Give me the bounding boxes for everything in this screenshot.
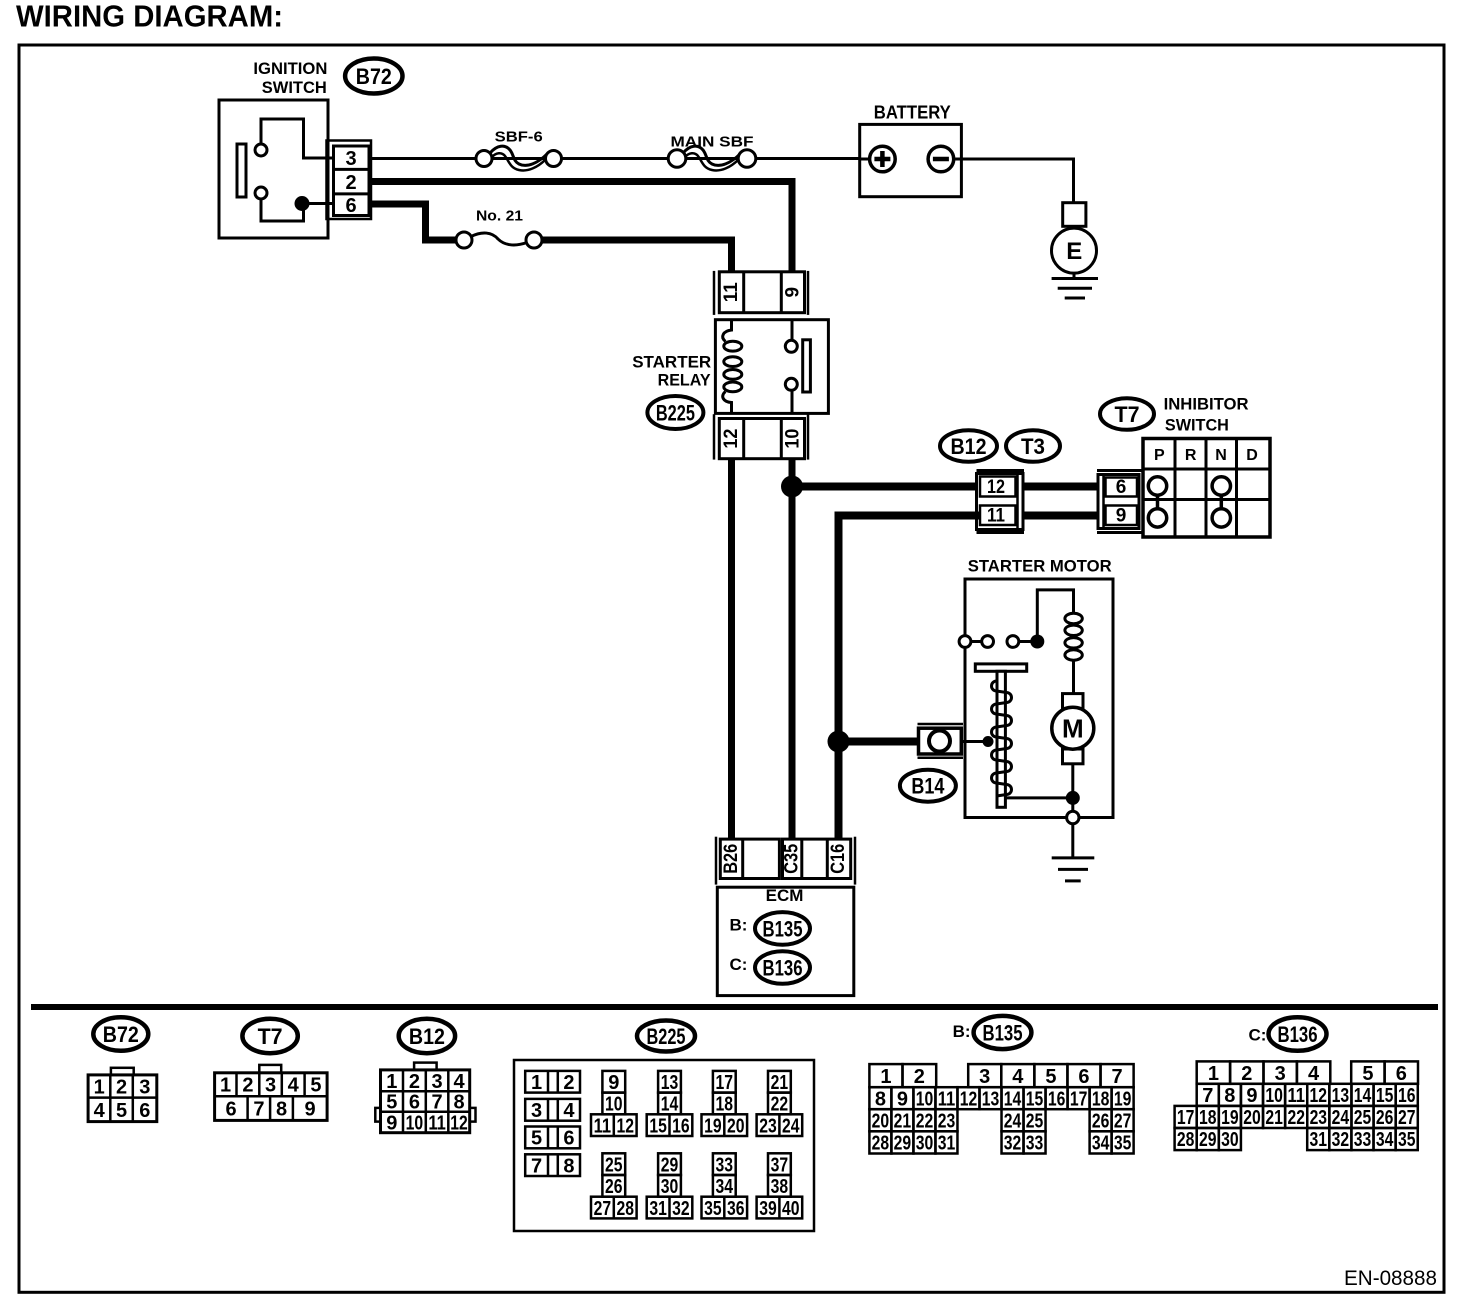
svg-text:12: 12 xyxy=(1310,1085,1328,1107)
wire contact to field coil xyxy=(1037,590,1073,642)
svg-text:C35: C35 xyxy=(782,843,803,873)
solenoid wire node xyxy=(983,736,994,747)
ground symbol starter motor xyxy=(1052,858,1095,881)
svg-text:2: 2 xyxy=(345,172,356,194)
svg-text:9: 9 xyxy=(304,1099,315,1121)
svg-text:5: 5 xyxy=(1362,1063,1373,1085)
connector B136 pin layout xyxy=(1175,1061,1418,1151)
connector label B135 xyxy=(755,912,810,945)
svg-text:34: 34 xyxy=(716,1176,734,1198)
connector B225 pin towers row 2 xyxy=(591,1153,802,1220)
svg-text:B136: B136 xyxy=(1278,1022,1318,1047)
svg-text:B135: B135 xyxy=(983,1021,1023,1046)
svg-text:10: 10 xyxy=(605,1094,623,1116)
svg-text:20: 20 xyxy=(727,1115,745,1137)
svg-text:6: 6 xyxy=(139,1100,150,1122)
svg-text:12: 12 xyxy=(450,1112,468,1134)
junction node C16 branch xyxy=(828,731,850,753)
svg-text:35: 35 xyxy=(704,1198,722,1220)
svg-text:12: 12 xyxy=(721,429,742,449)
svg-text:15: 15 xyxy=(1376,1085,1394,1107)
motor brush lower xyxy=(1063,749,1084,764)
svg-text:4: 4 xyxy=(453,1071,465,1093)
ECM connector pins xyxy=(716,837,855,885)
svg-text:T7: T7 xyxy=(258,1024,283,1049)
svg-text:3: 3 xyxy=(531,1100,542,1122)
ignition switch xyxy=(219,100,333,238)
svg-text:7: 7 xyxy=(253,1099,264,1121)
svg-text:No. 21: No. 21 xyxy=(476,208,523,225)
battery xyxy=(860,124,962,196)
wire relay pin 10 to ECM C35 xyxy=(789,459,796,839)
title xyxy=(16,0,283,34)
svg-text:3: 3 xyxy=(432,1071,443,1093)
wire stem to ground node xyxy=(1005,796,1072,799)
svg-text:T3: T3 xyxy=(1021,434,1045,459)
svg-text:28: 28 xyxy=(1177,1129,1195,1151)
svg-text:19: 19 xyxy=(1221,1107,1239,1129)
wire B14 into solenoid xyxy=(961,740,984,743)
svg-text:12: 12 xyxy=(960,1088,978,1110)
svg-text:35: 35 xyxy=(1398,1129,1416,1151)
svg-text:5: 5 xyxy=(310,1075,321,1097)
ECM connector C label xyxy=(730,955,748,974)
svg-text:M: M xyxy=(1062,714,1084,744)
svg-text:7: 7 xyxy=(432,1092,443,1114)
svg-text:2: 2 xyxy=(563,1072,574,1094)
svg-text:14: 14 xyxy=(661,1094,679,1116)
starter motor label xyxy=(968,556,1112,575)
svg-text:40: 40 xyxy=(782,1198,800,1220)
svg-text:6: 6 xyxy=(409,1092,420,1114)
starter motor box xyxy=(965,579,1113,818)
ground symbol battery xyxy=(1052,273,1098,298)
svg-text:4: 4 xyxy=(1308,1063,1320,1085)
svg-text:32: 32 xyxy=(1004,1133,1022,1155)
svg-text:28: 28 xyxy=(872,1133,890,1155)
svg-text:6: 6 xyxy=(226,1099,237,1121)
svg-text:RELAY: RELAY xyxy=(658,371,712,390)
connector label B72 (layout) xyxy=(93,1017,148,1051)
svg-text:14: 14 xyxy=(1004,1088,1022,1110)
svg-text:30: 30 xyxy=(1221,1129,1239,1151)
svg-text:23: 23 xyxy=(759,1115,777,1137)
svg-text:39: 39 xyxy=(759,1198,777,1220)
svg-text:3: 3 xyxy=(139,1077,150,1099)
wire relay pin 12 to ECM B26 xyxy=(728,459,735,839)
solenoid plunger stem xyxy=(997,671,1005,807)
svg-text:6: 6 xyxy=(1116,477,1127,498)
fuse No. 21 xyxy=(456,232,542,248)
svg-text:12: 12 xyxy=(987,477,1005,498)
svg-text:1: 1 xyxy=(1208,1063,1219,1085)
fuse SBF-6 xyxy=(476,146,562,170)
connector label T7 (layout) xyxy=(242,1019,297,1053)
svg-text:6: 6 xyxy=(563,1128,574,1150)
svg-text:7: 7 xyxy=(531,1155,542,1177)
svg-text:6: 6 xyxy=(1396,1063,1407,1085)
svg-text:1: 1 xyxy=(94,1077,105,1099)
svg-text:STARTER MOTOR: STARTER MOTOR xyxy=(968,556,1112,575)
svg-text:16: 16 xyxy=(1048,1088,1066,1110)
svg-text:8: 8 xyxy=(1224,1085,1235,1107)
connector T7 pin layout xyxy=(215,1065,328,1121)
svg-text:8: 8 xyxy=(453,1092,464,1114)
svg-text:EN-08888: EN-08888 xyxy=(1344,1267,1437,1290)
svg-text:2: 2 xyxy=(242,1075,253,1097)
svg-text:22: 22 xyxy=(1287,1107,1305,1129)
wire motor to ground node xyxy=(1071,764,1074,791)
svg-text:26: 26 xyxy=(1376,1107,1394,1129)
motor ground node xyxy=(1066,791,1080,805)
svg-text:9: 9 xyxy=(782,287,803,298)
svg-text:25: 25 xyxy=(1026,1111,1044,1133)
connector label B136 xyxy=(755,951,810,984)
svg-text:11: 11 xyxy=(1287,1085,1305,1107)
inhibitor contacts N xyxy=(1212,477,1230,527)
svg-text:32: 32 xyxy=(1332,1129,1350,1151)
svg-text:11: 11 xyxy=(428,1112,446,1134)
wire B72 pin 3 to battery xyxy=(369,157,860,160)
svg-text:N: N xyxy=(1215,447,1227,464)
svg-text:7: 7 xyxy=(1202,1085,1213,1107)
svg-text:SWITCH: SWITCH xyxy=(1165,415,1229,434)
svg-text:4: 4 xyxy=(563,1100,575,1122)
svg-text:5: 5 xyxy=(386,1092,397,1114)
svg-text:11: 11 xyxy=(938,1088,956,1110)
svg-text:17: 17 xyxy=(1177,1107,1195,1129)
ECM box xyxy=(717,887,854,995)
svg-text:E: E xyxy=(1066,238,1082,265)
ECM C prefix (layout) xyxy=(1249,1025,1267,1044)
wire battery negative to ground E xyxy=(954,159,1074,203)
svg-text:11: 11 xyxy=(987,505,1005,526)
connector label B72 xyxy=(345,59,402,94)
relay armature bar xyxy=(803,340,811,392)
svg-text:25: 25 xyxy=(605,1154,623,1176)
svg-text:B72: B72 xyxy=(356,64,392,89)
connector B12 pin layout xyxy=(375,1063,475,1135)
svg-text:17: 17 xyxy=(1070,1088,1088,1110)
junction node relay output xyxy=(781,476,803,498)
svg-text:BATTERY: BATTERY xyxy=(874,103,951,123)
svg-text:21: 21 xyxy=(771,1072,789,1094)
svg-text:25: 25 xyxy=(1354,1107,1372,1129)
svg-text:29: 29 xyxy=(661,1154,679,1176)
svg-text:29: 29 xyxy=(894,1133,912,1155)
svg-text:4: 4 xyxy=(94,1100,106,1122)
inhibitor switch label xyxy=(1164,394,1249,434)
svg-text:34: 34 xyxy=(1376,1129,1394,1151)
svg-text:B12: B12 xyxy=(409,1024,445,1049)
connector B14 xyxy=(918,724,964,758)
svg-text:P: P xyxy=(1154,447,1165,464)
wire junction to connector B12 pin 12 xyxy=(792,483,977,491)
ground block E xyxy=(1052,203,1097,273)
svg-text:13: 13 xyxy=(661,1072,679,1094)
wire node to case xyxy=(1071,798,1074,811)
connector label T3 xyxy=(1006,430,1060,462)
svg-text:8: 8 xyxy=(276,1099,287,1121)
connector B12/T3 xyxy=(977,471,1025,533)
label No. 21 xyxy=(476,208,523,225)
svg-text:32: 32 xyxy=(672,1198,690,1220)
svg-text:B14: B14 xyxy=(911,774,945,799)
svg-text:9: 9 xyxy=(608,1072,619,1094)
ECM label xyxy=(766,886,804,905)
svg-text:C16: C16 xyxy=(828,844,849,874)
starter motor field coil xyxy=(1065,613,1082,693)
connector label B135 (layout) xyxy=(974,1016,1032,1049)
relay coil xyxy=(723,320,742,414)
svg-text:WIRING DIAGRAM:: WIRING DIAGRAM: xyxy=(16,0,283,34)
svg-text:9: 9 xyxy=(897,1088,908,1110)
svg-text:10: 10 xyxy=(782,429,803,449)
svg-text:B136: B136 xyxy=(763,956,803,981)
connector label B14 xyxy=(900,770,956,802)
svg-text:21: 21 xyxy=(894,1111,912,1133)
svg-text:17: 17 xyxy=(716,1072,734,1094)
svg-text:10: 10 xyxy=(916,1088,934,1110)
wire fuse No.21 to relay pin 11 xyxy=(541,240,732,272)
svg-text:2: 2 xyxy=(116,1077,127,1099)
section divider xyxy=(31,1004,1438,1010)
ignition switch label xyxy=(253,59,327,97)
svg-text:R: R xyxy=(1185,447,1197,464)
svg-text:6: 6 xyxy=(345,195,356,217)
wire B72 pin 6 to fuse No.21 xyxy=(369,204,457,240)
svg-text:11: 11 xyxy=(594,1115,612,1137)
svg-text:22: 22 xyxy=(771,1094,789,1116)
svg-text:30: 30 xyxy=(661,1176,679,1198)
wire case to ground xyxy=(1071,824,1074,858)
svg-text:16: 16 xyxy=(1398,1085,1416,1107)
fuse MAIN SBF xyxy=(668,146,756,170)
connector label B12 (layout) xyxy=(399,1019,455,1053)
svg-text:22: 22 xyxy=(916,1111,934,1133)
connector label B225 xyxy=(647,396,703,429)
inhibitor switch grid xyxy=(1143,439,1270,538)
svg-text:1: 1 xyxy=(880,1066,891,1088)
svg-text:1: 1 xyxy=(531,1072,542,1094)
svg-text:33: 33 xyxy=(716,1154,734,1176)
svg-text:27: 27 xyxy=(594,1198,612,1220)
svg-text:19: 19 xyxy=(704,1115,722,1137)
junction dot ignition pin 6 xyxy=(295,196,310,211)
svg-text:12: 12 xyxy=(616,1115,634,1137)
svg-text:B135: B135 xyxy=(763,916,803,941)
svg-text:IGNITION: IGNITION xyxy=(253,59,327,78)
svg-text:26: 26 xyxy=(1092,1111,1110,1133)
svg-text:9: 9 xyxy=(1116,505,1127,526)
inhibitor contacts P xyxy=(1148,477,1166,527)
motor M xyxy=(1052,707,1094,749)
connector label B225 (layout) xyxy=(637,1021,695,1052)
svg-text:B:: B: xyxy=(953,1022,971,1041)
svg-text:35: 35 xyxy=(1114,1133,1132,1155)
starter motor contact node xyxy=(1030,635,1044,649)
svg-text:27: 27 xyxy=(1114,1111,1132,1133)
svg-text:38: 38 xyxy=(771,1176,789,1198)
svg-text:15: 15 xyxy=(649,1115,667,1137)
svg-text:10: 10 xyxy=(1265,1085,1283,1107)
svg-text:29: 29 xyxy=(1199,1129,1217,1151)
svg-text:33: 33 xyxy=(1026,1133,1044,1155)
svg-text:8: 8 xyxy=(563,1155,574,1177)
svg-text:11: 11 xyxy=(721,282,742,302)
svg-text:13: 13 xyxy=(982,1088,1000,1110)
svg-text:36: 36 xyxy=(727,1198,745,1220)
svg-text:31: 31 xyxy=(938,1133,956,1155)
svg-text:9: 9 xyxy=(386,1112,397,1134)
connector B135 pin layout xyxy=(869,1064,1133,1155)
svg-text:6: 6 xyxy=(1078,1066,1089,1088)
svg-text:24: 24 xyxy=(782,1115,800,1137)
svg-text:5: 5 xyxy=(116,1100,127,1122)
connector B225 left pin pairs xyxy=(525,1071,580,1178)
svg-text:31: 31 xyxy=(1310,1129,1328,1151)
svg-text:20: 20 xyxy=(872,1111,890,1133)
starter relay label xyxy=(632,353,711,390)
svg-text:23: 23 xyxy=(938,1111,956,1133)
svg-text:16: 16 xyxy=(672,1115,690,1137)
document number xyxy=(1344,1267,1437,1290)
svg-text:28: 28 xyxy=(616,1198,634,1220)
connector B225 pins 11/9 xyxy=(714,271,808,315)
wire B72 pin 2 to relay pin 9 xyxy=(369,182,792,273)
svg-text:26: 26 xyxy=(605,1176,623,1198)
svg-text:18: 18 xyxy=(1199,1107,1217,1129)
svg-text:24: 24 xyxy=(1332,1107,1350,1129)
svg-text:2: 2 xyxy=(914,1066,925,1088)
svg-text:B72: B72 xyxy=(103,1022,139,1047)
starter motor contacts xyxy=(959,636,1030,648)
svg-text:SBF-6: SBF-6 xyxy=(495,129,543,146)
svg-text:3: 3 xyxy=(265,1075,276,1097)
svg-text:18: 18 xyxy=(716,1094,734,1116)
ECM B prefix (layout) xyxy=(953,1022,971,1041)
svg-text:20: 20 xyxy=(1243,1107,1261,1129)
solenoid spring xyxy=(992,681,1012,796)
svg-text:2: 2 xyxy=(1241,1063,1252,1085)
svg-text:B225: B225 xyxy=(656,401,695,426)
relay contact xyxy=(785,320,797,414)
svg-text:C:: C: xyxy=(1249,1025,1267,1044)
svg-text:D: D xyxy=(1246,447,1258,464)
connector B72 pins xyxy=(327,141,372,220)
inhibitor switch pins 6/9 xyxy=(1097,471,1142,533)
connector B72 pin layout xyxy=(88,1068,157,1122)
svg-text:37: 37 xyxy=(771,1154,789,1176)
svg-text:7: 7 xyxy=(1111,1066,1122,1088)
svg-text:1: 1 xyxy=(386,1071,397,1093)
connector label B12 xyxy=(940,430,997,462)
wire T3 pin 12 to inhibitor pin 6 xyxy=(1023,483,1098,491)
wire T3 pin 11 to inhibitor pin 9 xyxy=(1023,512,1098,520)
svg-text:MAIN SBF: MAIN SBF xyxy=(671,134,754,151)
svg-text:3: 3 xyxy=(345,148,356,170)
connector label B136 (layout) xyxy=(1269,1017,1327,1051)
motor brush upper xyxy=(1063,694,1084,709)
starter relay xyxy=(715,320,828,414)
svg-text:INHIBITOR: INHIBITOR xyxy=(1164,394,1249,413)
svg-text:27: 27 xyxy=(1398,1107,1416,1129)
svg-text:4: 4 xyxy=(1012,1066,1024,1088)
svg-text:B12: B12 xyxy=(951,434,987,459)
svg-text:15: 15 xyxy=(1026,1088,1044,1110)
svg-text:13: 13 xyxy=(1332,1085,1350,1107)
connector B225 pin towers row 1 xyxy=(591,1071,802,1138)
wire junction to connector B14 xyxy=(839,738,919,746)
ECM connector B label xyxy=(730,915,748,934)
svg-text:4: 4 xyxy=(288,1075,300,1097)
svg-text:5: 5 xyxy=(1045,1066,1056,1088)
label SBF-6 xyxy=(495,129,543,146)
svg-text:1: 1 xyxy=(220,1075,231,1097)
svg-text:10: 10 xyxy=(406,1112,424,1134)
wire inhibitor pin 9 branch to ECM C16 xyxy=(839,516,981,840)
svg-text:14: 14 xyxy=(1354,1085,1372,1107)
svg-text:B:: B: xyxy=(730,915,748,934)
svg-text:3: 3 xyxy=(1275,1063,1286,1085)
connector B225 pins 12/10 xyxy=(714,414,808,459)
svg-text:3: 3 xyxy=(979,1066,990,1088)
svg-text:24: 24 xyxy=(1004,1111,1022,1133)
svg-text:5: 5 xyxy=(531,1128,542,1150)
svg-text:8: 8 xyxy=(875,1088,886,1110)
svg-text:23: 23 xyxy=(1310,1107,1328,1129)
svg-text:STARTER: STARTER xyxy=(632,353,711,372)
label MAIN SBF xyxy=(671,134,754,151)
svg-text:SWITCH: SWITCH xyxy=(262,78,327,97)
svg-text:21: 21 xyxy=(1265,1107,1283,1129)
connector label T7 xyxy=(1100,398,1154,430)
motor case terminal xyxy=(1067,811,1079,823)
svg-text:19: 19 xyxy=(1114,1088,1132,1110)
svg-text:B225: B225 xyxy=(647,1024,686,1049)
solenoid plunger T-bar xyxy=(975,664,1026,671)
svg-text:33: 33 xyxy=(1354,1129,1372,1151)
svg-text:9: 9 xyxy=(1246,1085,1257,1107)
svg-text:2: 2 xyxy=(409,1071,420,1093)
svg-text:T7: T7 xyxy=(1115,402,1140,427)
label BATTERY xyxy=(874,103,951,123)
svg-text:B26: B26 xyxy=(721,844,742,874)
svg-text:31: 31 xyxy=(649,1198,667,1220)
connector B225 layout box xyxy=(514,1060,814,1231)
svg-text:18: 18 xyxy=(1092,1088,1110,1110)
svg-text:34: 34 xyxy=(1092,1133,1110,1155)
svg-text:ECM: ECM xyxy=(766,886,804,905)
svg-text:30: 30 xyxy=(916,1133,934,1155)
svg-text:C:: C: xyxy=(730,955,748,974)
